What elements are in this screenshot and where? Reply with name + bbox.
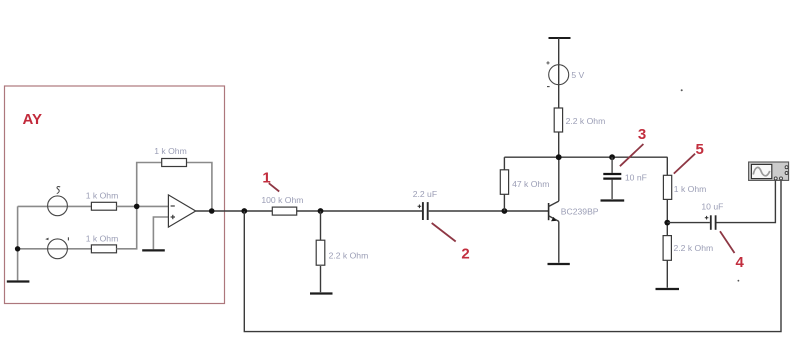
wire emitter down to ground — [558, 221, 560, 262]
red annotation 2 — [432, 223, 470, 263]
svg-text:2.2 k Ohm: 2.2 k Ohm — [566, 116, 606, 126]
source 5 V — [546, 61, 584, 86]
wire source V1 row — [18, 205, 92, 207]
resistor Rfb 1 k Ohm (feedback) — [154, 146, 186, 167]
AY label — [23, 111, 42, 128]
wire divider node to 10uF — [667, 222, 710, 224]
resistor R1 1 k Ohm (input top) — [86, 190, 118, 210]
power rail bar 5V — [549, 37, 571, 39]
resistor R6 2.2 k Ohm (collector load) — [554, 108, 605, 132]
source V1 (AC) — [48, 187, 68, 216]
red annotation 5 — [674, 141, 704, 174]
svg-text:10 uF: 10 uF — [701, 201, 723, 211]
svg-text:47 k Ohm: 47 k Ohm — [512, 179, 549, 189]
wire collector up to rail — [558, 157, 560, 201]
wire 2.2k to ground — [666, 260, 668, 287]
wire collector rail to right — [504, 156, 667, 158]
wire 1k to divider node — [666, 199, 668, 235]
resistor R5 47 k Ohm — [500, 170, 549, 195]
svg-text:100 k Ohm: 100 k Ohm — [261, 195, 303, 205]
transistor Q1 BC239BP — [549, 201, 599, 221]
wire source V2 row — [18, 248, 92, 250]
capacitor C3 10 uF — [701, 201, 723, 229]
ground emitter — [548, 263, 570, 265]
svg-text:4: 4 — [736, 254, 745, 271]
node base — [502, 208, 508, 214]
node C — [318, 208, 324, 214]
wire 2.2k to ground — [320, 266, 322, 292]
red annotation 3 — [620, 126, 646, 166]
node left common — [15, 246, 20, 251]
svg-text:AY: AY — [23, 111, 42, 128]
ground stage2 shunt — [310, 292, 333, 294]
ground left sources — [7, 280, 30, 282]
wire node C down to 2.2k — [320, 211, 322, 240]
svg-text:10 nF: 10 nF — [625, 172, 647, 182]
resistor R2 1 k Ohm (input bottom) — [86, 234, 118, 253]
svg-text:1 k Ohm: 1 k Ohm — [86, 190, 118, 200]
svg-text:2.2 k Ohm: 2.2 k Ohm — [329, 250, 369, 260]
node divider — [664, 220, 670, 226]
capacitor C1 2.2 uF — [413, 189, 437, 220]
speck artifact below 4 — [738, 280, 740, 282]
wire 10uF to scope input — [716, 179, 775, 223]
node summing junction — [134, 204, 140, 210]
wire cap to base node — [429, 210, 549, 212]
svg-text:2.2 k Ohm: 2.2 k Ohm — [674, 243, 714, 253]
svg-text:2.2 uF: 2.2 uF — [413, 189, 437, 199]
source V2 (AC) — [45, 237, 68, 258]
wire R1 to summing node — [117, 205, 169, 207]
capacitor C2 10 nF — [603, 157, 647, 199]
node B scope tap — [241, 208, 247, 214]
ground output divider — [656, 288, 680, 290]
svg-text:1 k Ohm: 1 k Ohm — [86, 234, 118, 244]
red annotation 4 — [720, 231, 745, 270]
wire feedback loop — [137, 163, 212, 212]
svg-text:3: 3 — [638, 126, 646, 143]
ground 10nF — [601, 199, 625, 201]
svg-text:1 k Ohm: 1 k Ohm — [154, 146, 186, 156]
speck artifact top right — [681, 89, 683, 91]
svg-text:5: 5 — [696, 141, 704, 158]
wire 5V stack — [558, 38, 560, 157]
resistor R7 1 k Ohm (output top) — [663, 175, 706, 199]
resistor R3 100 k Ohm — [261, 195, 303, 215]
node 10nF tap — [609, 154, 615, 160]
op-amp U1 — [168, 195, 195, 227]
svg-text:2: 2 — [461, 246, 469, 263]
wire base node up through 47k — [503, 157, 505, 211]
node op-amp output — [209, 208, 215, 214]
node collector rail — [556, 154, 562, 160]
red annotation 1 — [262, 169, 279, 191]
oscilloscope — [749, 162, 789, 180]
wire op-amp plus input — [153, 217, 168, 249]
resistor R8 2.2 k Ohm (output bottom) — [663, 236, 713, 261]
svg-text:BC239BP: BC239BP — [561, 207, 599, 217]
wire R2 to summing node — [117, 206, 137, 248]
svg-text:5 V: 5 V — [571, 70, 584, 80]
wire left common vertical to ground — [17, 206, 19, 280]
AY subcircuit box — [5, 86, 225, 304]
wire rail down to 1k — [666, 157, 668, 175]
wire scope return bottom loop — [244, 179, 781, 332]
wire 100k to node C and cap — [297, 210, 422, 212]
ground op-amp plus — [142, 249, 165, 251]
wire op-amp output rail — [196, 210, 273, 212]
svg-text:1 k Ohm: 1 k Ohm — [674, 184, 706, 194]
resistor R4 2.2 k Ohm (shunt) — [316, 240, 368, 265]
